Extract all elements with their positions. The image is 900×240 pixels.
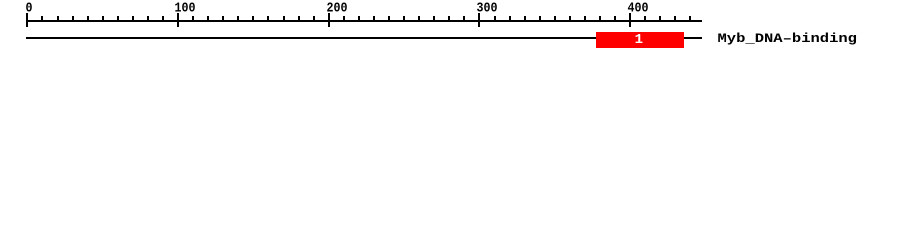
svg-text:100: 100 [175,1,196,17]
svg-text:200: 200 [327,1,348,17]
svg-text:300: 300 [477,1,498,17]
svg-text:Myb_DNA–binding: Myb_DNA–binding [718,31,858,46]
svg-text:0: 0 [26,1,33,17]
svg-text:1: 1 [635,32,643,48]
svg-text:400: 400 [628,1,649,17]
